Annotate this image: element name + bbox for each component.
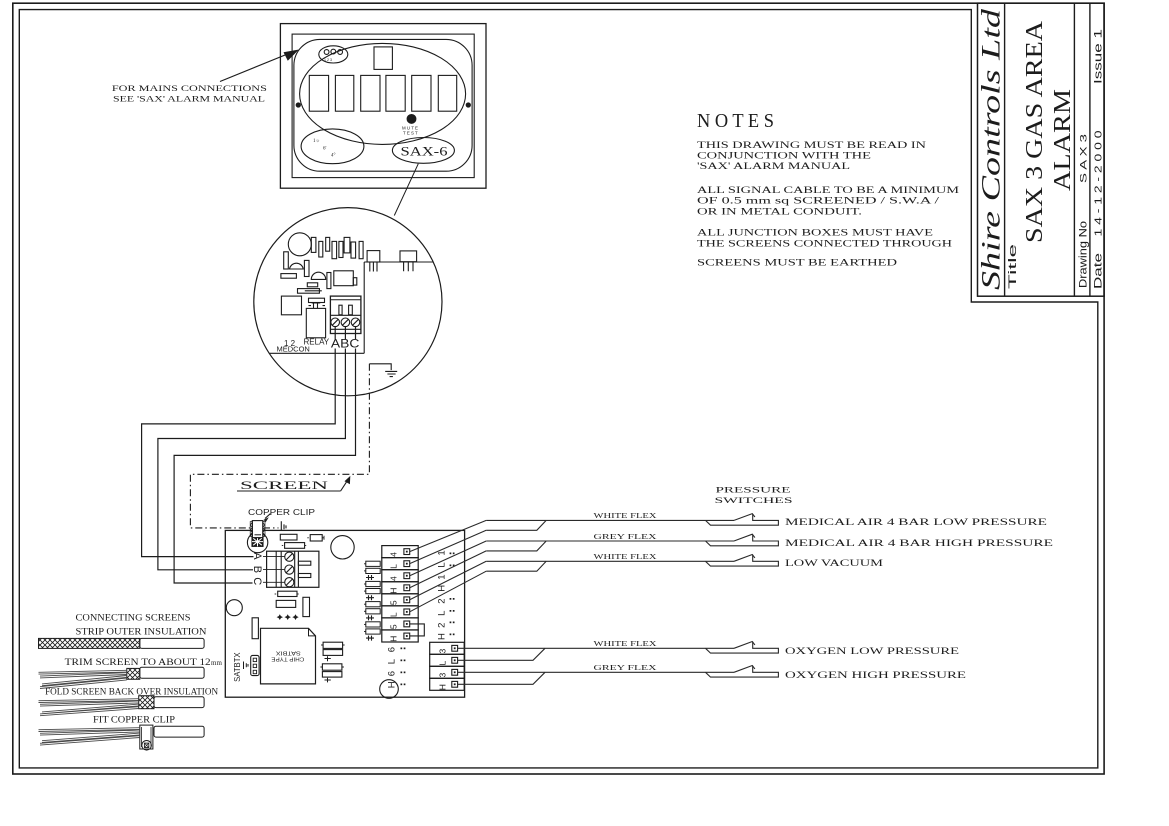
mains note leader line bbox=[220, 53, 290, 82]
panel window square bbox=[374, 47, 392, 70]
silkscreen dots bbox=[450, 553, 452, 555]
indicator cluster ellipse bbox=[319, 46, 348, 63]
svg-text:WHITE FLEX: WHITE FLEX bbox=[594, 511, 658, 520]
oxygen wire run upper 1 bbox=[458, 647, 734, 649]
wire run upper 3 bbox=[486, 560, 734, 562]
ground symbol bbox=[385, 371, 397, 376]
wire run lower 1 bbox=[486, 520, 546, 530]
svg-text:SCREEN: SCREEN bbox=[240, 480, 329, 492]
legend ellipse bbox=[301, 129, 364, 164]
terminal block oxygen 30 bbox=[430, 642, 465, 654]
pcb board bottom edge bbox=[270, 352, 365, 354]
svg-text:FOLD SCREEN BACK OVER INSULATI: FOLD SCREEN BACK OVER INSULATION bbox=[45, 686, 219, 696]
terminal block H7 bbox=[382, 630, 418, 642]
3 pin header bbox=[251, 655, 259, 675]
svg-text:4: 4 bbox=[389, 576, 399, 581]
copper clip body bbox=[252, 521, 263, 538]
svg-text:6: 6 bbox=[387, 647, 398, 652]
pcb resistor r4 bbox=[332, 241, 337, 258]
svg-text:THE SCREENS CONNECTED THROUGH: THE SCREENS CONNECTED THROUGH bbox=[697, 238, 953, 248]
svg-text:LOW VACUUM: LOW VACUUM bbox=[785, 559, 884, 569]
pcb resistor r2 bbox=[319, 241, 323, 257]
terminal slot 1 bbox=[339, 305, 342, 315]
screen link mark bbox=[281, 521, 286, 531]
svg-text:TRIM SCREEN TO ABOUT 12: TRIM SCREEN TO ABOUT 12 bbox=[65, 657, 211, 667]
board terminal block ABC bbox=[267, 551, 319, 587]
terminal block 40 bbox=[382, 546, 418, 558]
pcb dome part 1 bbox=[290, 263, 304, 269]
part above chip bbox=[276, 593, 278, 595]
satbtx link mark bbox=[244, 662, 249, 670]
chip SATBIX bbox=[261, 628, 316, 684]
svg-text:H: H bbox=[387, 681, 398, 688]
terminal finger 2 bbox=[298, 574, 310, 578]
svg-text:ALARM: ALARM bbox=[1050, 89, 1076, 191]
svg-text:ALL SIGNAL CABLE TO BE A MINIM: ALL SIGNAL CABLE TO BE A MINIMUM bbox=[697, 185, 959, 195]
svg-text:L: L bbox=[389, 564, 399, 569]
mains note arrowhead bbox=[284, 50, 300, 61]
cable step 2 bbox=[140, 667, 204, 678]
svg-text:OXYGEN LOW PRESSURE: OXYGEN LOW PRESSURE bbox=[785, 647, 959, 657]
svg-text:A: A bbox=[251, 552, 263, 560]
svg-text:1☼: 1☼ bbox=[313, 139, 320, 144]
svg-text:H: H bbox=[389, 588, 399, 594]
jumper link blocks 7-8 bbox=[410, 624, 425, 636]
oxygen wire run lower 2 bbox=[458, 672, 545, 684]
svg-text:6: 6 bbox=[387, 671, 398, 676]
svg-text:L: L bbox=[437, 611, 448, 616]
svg-text:OF 0.5 mm sq SCREENED / S.W.A: OF 0.5 mm sq SCREENED / S.W.A / bbox=[697, 196, 940, 206]
pcb resistor r6 bbox=[344, 237, 350, 253]
svg-text:L: L bbox=[389, 612, 399, 617]
pcb part bbox=[327, 273, 331, 289]
board hole circle left bbox=[226, 600, 242, 616]
PLACEHOLDER-B bbox=[225, 521, 464, 699]
terminal block 42 bbox=[382, 570, 418, 582]
svg-text:4: 4 bbox=[389, 552, 399, 557]
svg-text:STRIP OUTER INSULATION: STRIP OUTER INSULATION bbox=[76, 627, 208, 637]
terminal bottom strip bbox=[330, 328, 361, 330]
three star symbols bbox=[277, 614, 283, 620]
detail leader line bbox=[394, 164, 418, 216]
svg-text:MEDICAL AIR 4 BAR LOW PRESSURE: MEDICAL AIR 4 BAR LOW PRESSURE bbox=[785, 518, 1047, 528]
title block divider 1 bbox=[1004, 3, 1006, 296]
svg-text:6': 6' bbox=[323, 147, 327, 152]
title block outline bbox=[978, 3, 1105, 296]
wire run upper 1 bbox=[486, 519, 734, 521]
cable step 1 bbox=[39, 638, 140, 648]
svg-text:Date: Date bbox=[1093, 253, 1105, 289]
wire diagonal pair 2 bbox=[410, 541, 487, 576]
svg-text:B: B bbox=[251, 566, 263, 573]
indicator circle 1 bbox=[324, 50, 329, 55]
capacitor group 1 bbox=[321, 644, 345, 646]
title block divider 2 bbox=[1073, 3, 1075, 296]
right fixing screw bbox=[466, 103, 470, 107]
terminal block oxygen H3 bbox=[430, 678, 465, 690]
alarm panel outer box bbox=[280, 24, 486, 189]
copper clip arrow bbox=[265, 514, 270, 519]
pcb resistor r8 bbox=[359, 241, 363, 258]
svg-text:C: C bbox=[251, 577, 263, 585]
svg-text:WHITE FLEX: WHITE FLEX bbox=[594, 639, 658, 648]
svg-text:SAX 3 GAS AREA: SAX 3 GAS AREA bbox=[1022, 20, 1048, 243]
svg-text:CHIP TYPE: CHIP TYPE bbox=[271, 656, 304, 662]
svg-text:SCREENS MUST BE EARTHED: SCREENS MUST BE EARTHED bbox=[697, 258, 898, 268]
SAX-6 ellipse bbox=[392, 138, 454, 164]
component column bbox=[366, 561, 380, 566]
svg-text:THIS DRAWING MUST BE READ IN: THIS DRAWING MUST BE READ IN bbox=[697, 140, 927, 150]
terminal screw B bbox=[341, 318, 350, 327]
display window 6 bbox=[438, 75, 456, 111]
ground branch line bbox=[369, 364, 391, 370]
svg-text:CONNECTING SCREENS: CONNECTING SCREENS bbox=[76, 612, 191, 622]
pcb resistor r3 bbox=[326, 237, 330, 251]
svg-text:H: H bbox=[389, 636, 399, 642]
pcb crystal component bbox=[309, 298, 325, 302]
svg-text:ALL JUNCTION BOXES MUST HAVE: ALL JUNCTION BOXES MUST HAVE bbox=[697, 228, 934, 238]
pcb board top edge bbox=[364, 261, 433, 263]
display window 4 bbox=[386, 75, 405, 111]
svg-text:H: H bbox=[438, 684, 448, 690]
svg-text:2: 2 bbox=[437, 599, 448, 604]
board hole circle top bbox=[331, 536, 354, 559]
indicator circle 2 bbox=[331, 49, 336, 54]
pcb resistor r7 bbox=[351, 242, 356, 258]
svg-text:COPPER CLIP: COPPER CLIP bbox=[248, 508, 315, 517]
left fixing screw bbox=[296, 103, 300, 107]
oxygen pressure switch 2 bbox=[706, 666, 779, 677]
wire run lower 3 bbox=[486, 561, 546, 571]
svg-text:MEDCON: MEDCON bbox=[277, 345, 310, 354]
svg-text:SWITCHES: SWITCHES bbox=[715, 495, 794, 505]
svg-text:S A X 3: S A X 3 bbox=[1079, 134, 1090, 183]
oxygen wire run upper 2 bbox=[458, 671, 734, 673]
svg-text:SAX-6: SAX-6 bbox=[401, 144, 449, 159]
capacitor group 2 bbox=[320, 666, 344, 668]
svg-text:GREY FLEX: GREY FLEX bbox=[594, 663, 658, 672]
svg-text:1 4 - 1 2 - 2 0 0 0: 1 4 - 1 2 - 2 0 0 0 bbox=[1093, 130, 1105, 236]
cable step 3 bbox=[154, 697, 204, 708]
svg-text:5: 5 bbox=[389, 600, 399, 605]
svg-text:'SAX' ALARM MANUAL: 'SAX' ALARM MANUAL bbox=[697, 161, 850, 171]
pcb part bbox=[304, 260, 309, 276]
svg-text:5: 5 bbox=[389, 624, 399, 629]
wire diagonal pair 3 bbox=[410, 561, 487, 599]
svg-text:SATBIX: SATBIX bbox=[275, 650, 300, 656]
svg-text:GREY FLEX: GREY FLEX bbox=[594, 532, 658, 541]
display window 2 bbox=[335, 75, 353, 111]
vertical part left bbox=[252, 618, 258, 639]
svg-text:SATBTX: SATBTX bbox=[233, 652, 242, 682]
pcb tall part left bbox=[284, 252, 289, 269]
terminal block 56 bbox=[382, 618, 418, 630]
svg-text:SEE 'SAX' ALARM MANUAL: SEE 'SAX' ALARM MANUAL bbox=[113, 94, 265, 104]
oxygen pressure switch 1 bbox=[706, 642, 779, 653]
alarm panel inner box bbox=[292, 34, 474, 178]
terminal block L5 bbox=[382, 606, 418, 618]
board part d bbox=[276, 600, 296, 607]
screen arrow bbox=[341, 478, 349, 491]
wire run upper 2 bbox=[486, 540, 734, 542]
svg-text:H: H bbox=[437, 633, 448, 640]
svg-text:MEDICAL AIR 4 BAR HIGH PRESSUR: MEDICAL AIR 4 BAR HIGH PRESSURE bbox=[785, 539, 1053, 549]
pcb dome part 2 bbox=[311, 272, 325, 279]
terminal block H3 bbox=[382, 582, 418, 594]
title block divider 3 bbox=[1089, 3, 1091, 296]
svg-text:CONJUNCTION WITH THE: CONJUNCTION WITH THE bbox=[697, 151, 872, 161]
pressure switch 3 bbox=[706, 555, 779, 566]
copper clip screw head bbox=[252, 537, 263, 547]
svg-text:WHITE FLEX: WHITE FLEX bbox=[594, 552, 658, 561]
display window 1 bbox=[309, 75, 328, 111]
pcb electrolytic capacitor bbox=[288, 233, 311, 256]
mute test button bbox=[407, 115, 416, 124]
svg-text:FIT COPPER CLIP: FIT COPPER CLIP bbox=[93, 715, 175, 725]
terminal slot 2 bbox=[349, 305, 353, 315]
wire B bbox=[158, 327, 346, 570]
svg-text:FOR MAINS CONNECTIONS: FOR MAINS CONNECTIONS bbox=[112, 83, 267, 93]
svg-text:mm: mm bbox=[211, 659, 222, 667]
detail circle bbox=[254, 208, 442, 396]
terminal screw C bbox=[351, 318, 360, 327]
transistor pack q1 bbox=[367, 251, 380, 262]
terminal block oxygen L1 bbox=[430, 654, 465, 666]
terminal finger 1 bbox=[298, 561, 310, 565]
svg-text:OXYGEN HIGH PRESSURE: OXYGEN HIGH PRESSURE bbox=[785, 671, 966, 681]
svg-text:L: L bbox=[438, 661, 448, 666]
indicator circle 3 bbox=[338, 50, 343, 55]
board hole circle bottom bbox=[380, 680, 399, 699]
svg-text:2: 2 bbox=[437, 623, 448, 628]
svg-text:Issue 1: Issue 1 bbox=[1093, 29, 1105, 84]
terminal block 54 bbox=[382, 594, 418, 606]
svg-text:4°: 4° bbox=[331, 154, 336, 159]
svg-text:1: 1 bbox=[437, 574, 448, 579]
junction board outline bbox=[225, 530, 464, 697]
wire stubs into screws bbox=[263, 557, 285, 583]
board part a bbox=[280, 534, 297, 540]
screen label underline bbox=[237, 490, 341, 492]
pressure switch 1 bbox=[706, 514, 779, 525]
copper clip screw circle bbox=[247, 532, 267, 552]
wire run lower 2 bbox=[486, 541, 546, 551]
svg-text:3: 3 bbox=[438, 673, 448, 678]
pcb part horizontal bbox=[281, 274, 297, 279]
terminal mid line bbox=[330, 314, 361, 316]
pcb terminal block upper bbox=[330, 296, 361, 333]
alarm panel display ellipse bbox=[300, 43, 466, 144]
svg-text:PRESSURE: PRESSURE bbox=[716, 485, 791, 495]
terminal screw A bbox=[331, 318, 340, 327]
svg-text:OR IN METAL CONDUIT.: OR IN METAL CONDUIT. bbox=[697, 206, 862, 216]
wire A bbox=[142, 327, 336, 557]
board part c bbox=[307, 537, 309, 539]
svg-text:3: 3 bbox=[438, 649, 448, 654]
svg-text:Shire Controls Ltd: Shire Controls Ltd bbox=[977, 8, 1006, 290]
alarm panel face plate rounded bbox=[294, 39, 472, 171]
pcb part pair bbox=[307, 283, 317, 287]
transistor pack q2 bbox=[400, 251, 417, 262]
screen dash-dot path bbox=[190, 364, 369, 528]
board part b bbox=[282, 545, 284, 547]
terminal block oxygen 32 bbox=[430, 666, 465, 678]
cable step 4 bbox=[154, 726, 204, 737]
pcb resistor r1 bbox=[311, 237, 316, 252]
pcb board right edge bbox=[363, 262, 365, 353]
terminal block L1 bbox=[382, 558, 418, 570]
pcb relay box bbox=[334, 271, 354, 286]
svg-text:T E S T: T E S T bbox=[403, 131, 418, 136]
wire diagonal pair 1 bbox=[410, 520, 487, 551]
pcb square component bbox=[281, 296, 301, 315]
svg-text:Title: Title bbox=[1007, 244, 1019, 289]
svg-text:Drawing No: Drawing No bbox=[1078, 221, 1090, 288]
svg-text:L: L bbox=[387, 659, 398, 664]
part pair above stars bbox=[276, 593, 278, 595]
board part under terminal bbox=[275, 593, 277, 595]
svg-text:N O T E S: N O T E S bbox=[697, 110, 774, 132]
display window 3 bbox=[361, 75, 380, 111]
pcb resistor r5 bbox=[339, 241, 343, 257]
pressure switch 2 bbox=[706, 535, 779, 546]
svg-text:1 2 3: 1 2 3 bbox=[324, 58, 332, 62]
wire C bbox=[174, 327, 355, 583]
vertical part mid bbox=[303, 597, 310, 616]
oxygen wire run lower 1 bbox=[458, 648, 545, 660]
display window 5 bbox=[412, 75, 431, 111]
